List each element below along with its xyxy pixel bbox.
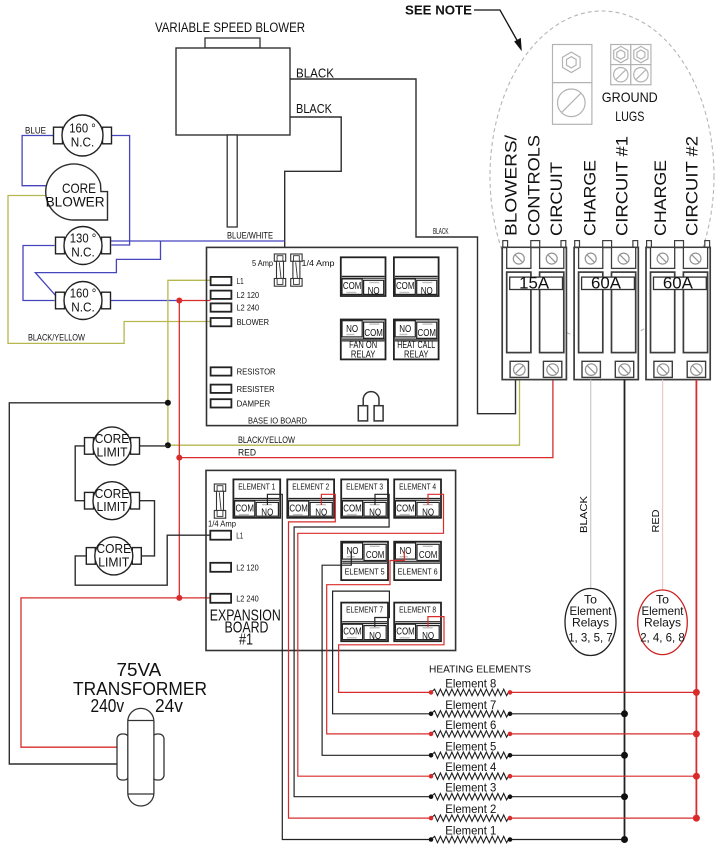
terminal L2 240 (base board) <box>211 303 260 312</box>
terminal L1 (expansion board) <box>210 531 243 541</box>
transformer T1 symbol <box>117 708 164 806</box>
node element 8 right <box>508 690 513 695</box>
svg-text:BLOWER: BLOWER <box>46 194 105 210</box>
svg-text:1, 3, 5, 7: 1, 3, 5, 7 <box>568 631 613 645</box>
svg-text:RELAY: RELAY <box>404 349 429 360</box>
wire blue branch to switch S3 left <box>35 241 160 296</box>
svg-text:NO: NO <box>347 545 359 557</box>
node element 7 bus junction <box>621 710 628 717</box>
svg-text:CORE: CORE <box>97 542 132 556</box>
node element 5 bus junction <box>621 752 628 759</box>
circuit breaker CB3 (60A) <box>646 241 710 380</box>
svg-text:NO: NO <box>368 285 380 297</box>
node element 2 left <box>429 816 434 821</box>
node element 7 right <box>508 712 513 717</box>
wire BLACK from blower to blue/white junction <box>285 117 342 247</box>
circuit breaker CB2 (60A) <box>574 241 638 380</box>
svg-text:RED: RED <box>238 448 256 458</box>
svg-text:LUGS: LUGS <box>615 108 644 124</box>
wire blue: switch S2 left down to switch S3 left <box>23 246 55 301</box>
fuse F1 5A <box>274 254 285 286</box>
svg-text:ELEMENT 3: ELEMENT 3 <box>346 481 383 491</box>
svg-text:ELEMENT 7: ELEMENT 7 <box>346 605 383 615</box>
svg-text:LIMIT: LIMIT <box>97 445 128 459</box>
wire element 7 to bus <box>510 713 625 715</box>
svg-text:Element 2: Element 2 <box>445 802 496 816</box>
heating element R2 (Element 2) <box>431 802 510 821</box>
svg-text:CIRCUIT #2: CIRCUIT #2 <box>683 136 701 236</box>
relay K7 ELEMENT 3 <box>341 479 388 518</box>
relay K9 ELEMENT 5 <box>341 542 388 580</box>
EXPANSION BOARD #1 label <box>210 608 281 649</box>
wire element 6 to bus <box>510 733 696 735</box>
heating element R5 (Element 5) <box>431 739 510 758</box>
node element 8 bus junction <box>693 689 700 696</box>
wire: core limit chain CL1-CL2 <box>75 446 84 501</box>
wire red: to expansion L2 240 terminal <box>179 597 210 599</box>
svg-text:VARIABLE SPEED BLOWER: VARIABLE SPEED BLOWER <box>155 20 305 35</box>
relay K6 ELEMENT 2 <box>287 479 334 518</box>
svg-text:CORE: CORE <box>95 432 130 446</box>
heating element R8 (Element 8) <box>431 676 510 695</box>
terminal RESISTER (base board) <box>211 385 275 394</box>
transformer T1 labels <box>73 659 207 716</box>
wire element 4 to bus <box>510 775 696 777</box>
thermal switch S2 130 N.C. <box>56 227 111 265</box>
heating element R3 (Element 3) <box>431 781 510 800</box>
wire element 3 feed (black) <box>294 494 431 796</box>
svg-text:NO: NO <box>369 630 381 642</box>
svg-text:BASE IO BOARD: BASE IO BOARD <box>248 416 307 426</box>
svg-text:75VA: 75VA <box>117 659 162 680</box>
svg-text:NO: NO <box>369 507 381 519</box>
node element 7 left <box>429 712 434 717</box>
svg-text:NO: NO <box>422 507 434 519</box>
svg-text:NO: NO <box>261 507 273 519</box>
node element 3 bus junction <box>621 793 628 800</box>
terminal L2 120 (expansion board) <box>210 563 259 573</box>
node element 4 bus junction <box>693 773 700 780</box>
wire: CL3 left to expansion L1 <box>75 535 210 585</box>
svg-text:COM: COM <box>366 550 385 561</box>
wire element 4 feed (red) <box>298 494 444 776</box>
core limit switch CL3 <box>86 537 141 575</box>
svg-text:L1: L1 <box>237 277 244 286</box>
svg-text:#1: #1 <box>239 632 253 649</box>
heating element R6 (Element 6) <box>431 718 510 737</box>
heating element R1 (Element 1) <box>431 824 510 843</box>
thermal switch S1 160 N.C. <box>54 115 112 156</box>
wire element 8 feed (red) <box>339 617 444 693</box>
wire pink (RED) CB3 left pole to relay ellipse <box>662 380 664 590</box>
relay K8 ELEMENT 4 <box>394 479 441 518</box>
node element 1 bus junction <box>621 836 628 843</box>
svg-text:COM: COM <box>343 281 362 292</box>
wire element 7 feed (black) <box>333 591 431 714</box>
svg-text:L2 120: L2 120 <box>236 564 259 573</box>
node element 6 right <box>508 732 513 737</box>
wire: core limit chain CL2-CL3 <box>140 501 155 556</box>
wire element 1 feed (black) <box>267 494 431 839</box>
svg-text:BLACK/YELLOW: BLACK/YELLOW <box>238 435 295 445</box>
svg-text:COM: COM <box>289 503 308 514</box>
relay K4 HEAT CALL RELAY <box>394 320 439 361</box>
terminal RESISTOR (base board) <box>211 367 276 376</box>
relay K10 ELEMENT 6 <box>394 542 441 580</box>
svg-text:SEE NOTE: SEE NOTE <box>405 4 472 18</box>
wire element 2 to bus <box>510 817 696 819</box>
node element 2 bus junction <box>693 815 700 822</box>
heating element R7 (Element 7) <box>431 698 510 717</box>
svg-text:L2 240: L2 240 <box>236 595 259 604</box>
GROUND LUGS label <box>602 89 658 124</box>
node element 2 right <box>508 816 513 821</box>
svg-text:24v: 24v <box>155 695 184 716</box>
svg-text:60A: 60A <box>663 274 693 292</box>
circuit breaker CB1 (15A) <box>502 241 566 380</box>
wire red: junction to L2 120 terminal <box>179 300 210 302</box>
variable speed blower M1 <box>176 38 290 227</box>
terminal BLOWER (base board) <box>211 318 270 327</box>
wire black: yellow junction to transformer primary <box>9 403 168 764</box>
svg-text:NO: NO <box>315 507 327 519</box>
SEE NOTE label and arrow <box>405 4 522 52</box>
svg-text:Relays: Relays <box>644 616 681 630</box>
svg-text:L2 240: L2 240 <box>237 304 260 313</box>
core limit switch CL1 <box>85 427 140 465</box>
wire blue: switch S3 right to red junction <box>111 300 180 302</box>
wire black/yellow: L1 terminal to breaker CB1 left pole <box>168 280 520 445</box>
svg-text:BLACK: BLACK <box>296 67 335 81</box>
svg-text:ELEMENT 4: ELEMENT 4 <box>399 481 436 491</box>
svg-text:RESISTER: RESISTER <box>237 385 275 394</box>
svg-text:Relays: Relays <box>572 616 609 630</box>
svg-text:COM: COM <box>396 627 415 638</box>
To Element Relays 1,3,5,7 ellipse <box>565 589 616 656</box>
svg-text:Element 5: Element 5 <box>445 739 496 753</box>
svg-text:L1: L1 <box>236 532 243 541</box>
svg-text:CIRCUIT: CIRCUIT <box>548 162 566 236</box>
svg-text:Element 8: Element 8 <box>445 676 496 690</box>
svg-text:Element 1: Element 1 <box>445 824 496 838</box>
svg-text:RELAY: RELAY <box>351 349 376 360</box>
svg-text:LIMIT: LIMIT <box>98 555 129 569</box>
wire red: to breaker CB1 right pole <box>179 380 553 458</box>
svg-text:Element 4: Element 4 <box>445 760 496 774</box>
svg-text:1/4 Amp: 1/4 Amp <box>208 519 236 529</box>
svg-text:NO: NO <box>422 630 434 642</box>
svg-text:HEATING ELEMENTS: HEATING ELEMENTS <box>429 665 531 676</box>
wire red main vertical <box>178 301 180 598</box>
jumper plug symbol <box>358 392 383 421</box>
svg-text:CHARGE: CHARGE <box>652 160 670 236</box>
svg-text:CIRCUIT #1: CIRCUIT #1 <box>613 136 631 236</box>
svg-text:LIMIT: LIMIT <box>97 500 128 514</box>
ground lug (single) <box>553 45 592 125</box>
svg-text:CONTROLS: CONTROLS <box>525 135 543 236</box>
terminal L1 (base board) <box>211 277 244 286</box>
wire element 5 to bus <box>510 754 625 756</box>
svg-text:GROUND: GROUND <box>602 89 658 105</box>
wire red bus CB3 right pole down to elements <box>695 380 697 818</box>
svg-text:5 Amp: 5 Amp <box>252 258 273 268</box>
node element 6 bus junction <box>693 730 700 737</box>
wire element 1 to bus <box>510 839 625 841</box>
wire gray (BLACK) CB2 left pole to relay ellipse <box>590 380 592 589</box>
svg-text:COM: COM <box>419 550 438 561</box>
thermal switch S3 160 N.C. <box>56 282 111 320</box>
relay K3 FAN ON RELAY <box>341 320 386 361</box>
svg-text:COM: COM <box>235 503 254 514</box>
svg-text:L2 120: L2 120 <box>237 291 260 300</box>
fuse F3 1/4A (expansion) <box>214 484 225 518</box>
wire element 3 to bus <box>510 796 625 798</box>
svg-text:BLACK/YELLOW: BLACK/YELLOW <box>28 333 85 343</box>
svg-text:N.C.: N.C. <box>71 301 95 315</box>
relay K12 ELEMENT 8 <box>394 603 441 642</box>
svg-text:60A: 60A <box>591 274 621 292</box>
svg-text:BLACK: BLACK <box>296 102 333 116</box>
svg-text:2, 4, 6, 8: 2, 4, 6, 8 <box>640 631 685 645</box>
svg-text:COM: COM <box>418 328 437 339</box>
svg-text:1/4 Amp: 1/4 Amp <box>302 258 335 268</box>
node element 5 right <box>508 753 513 758</box>
svg-text:COM: COM <box>343 627 362 638</box>
svg-text:BLOWERS/: BLOWERS/ <box>503 135 521 236</box>
relay K5 ELEMENT 1 <box>233 479 280 518</box>
svg-text:NO: NO <box>346 323 358 335</box>
expansion board U2 outline <box>206 470 456 650</box>
wire element 8 to bus <box>510 691 696 693</box>
relay K1 (base board) <box>341 257 386 297</box>
wire blue: switch S1 right down to switch S2 right <box>111 136 130 246</box>
svg-text:NO: NO <box>400 545 412 557</box>
svg-text:BLUE/WHITE: BLUE/WHITE <box>227 231 273 241</box>
svg-text:COM: COM <box>396 281 415 292</box>
svg-text:N.C.: N.C. <box>71 136 95 150</box>
relay K11 ELEMENT 7 <box>341 603 388 642</box>
terminal L2 240 (expansion board) <box>210 594 259 604</box>
svg-text:CHARGE: CHARGE <box>582 160 600 236</box>
svg-text:240v: 240v <box>91 695 125 716</box>
svg-text:N.C.: N.C. <box>71 246 95 260</box>
terminal DAMPER (base board) <box>211 399 271 408</box>
svg-text:BLUE: BLUE <box>25 126 46 136</box>
base IO board U1 outline <box>207 247 458 425</box>
junction dot at core limit feed <box>165 442 171 448</box>
svg-text:NO: NO <box>421 285 433 297</box>
wire black bus CB2 right pole down to elements <box>624 380 626 840</box>
svg-text:ELEMENT 2: ELEMENT 2 <box>292 481 329 491</box>
node element 4 right <box>508 774 513 779</box>
junction dot at yellow wire <box>165 400 171 406</box>
svg-text:ELEMENT 1: ELEMENT 1 <box>238 481 275 491</box>
svg-text:BLOWER: BLOWER <box>237 318 270 327</box>
svg-text:130 °: 130 ° <box>70 231 97 245</box>
heating element R4 (Element 4) <box>431 760 510 779</box>
svg-text:BLACK: BLACK <box>578 496 590 533</box>
svg-text:DAMPER: DAMPER <box>237 399 271 408</box>
svg-text:BLACK: BLACK <box>433 227 449 236</box>
svg-text:RESISTOR: RESISTOR <box>237 368 276 377</box>
wire element 6 feed (red) <box>327 551 431 734</box>
fuse F2 1/4A <box>291 254 302 286</box>
svg-text:COM: COM <box>396 503 415 514</box>
svg-text:15A: 15A <box>519 274 549 292</box>
svg-text:ELEMENT 6: ELEMENT 6 <box>398 567 438 577</box>
node element 1 right <box>508 837 513 842</box>
wire BLACK from blower to breaker CB1 left pole <box>290 79 516 414</box>
svg-text:RED: RED <box>650 509 662 532</box>
node element 1 left <box>429 837 434 842</box>
wire black/yellow: core blower to BLOWER terminal <box>8 196 211 344</box>
node element 5 left <box>429 753 434 758</box>
wire element 2 feed (red) <box>289 494 432 818</box>
node element 3 left <box>429 794 434 799</box>
note ellipse (dashed) <box>490 11 714 341</box>
wire: CL1 right to yellow junction <box>140 445 168 447</box>
svg-text:Element 3: Element 3 <box>445 781 496 795</box>
core limit switch CL2 <box>85 482 140 520</box>
svg-text:ELEMENT 8: ELEMENT 8 <box>399 605 436 615</box>
node element 6 left <box>429 732 434 737</box>
node element 4 left <box>429 774 434 779</box>
svg-text:160 °: 160 ° <box>70 286 97 300</box>
core blower B1 <box>46 164 108 220</box>
svg-text:Element 6: Element 6 <box>445 718 496 732</box>
svg-text:ELEMENT 5: ELEMENT 5 <box>345 567 385 577</box>
wire blue: switch S1 left to core blower <box>22 136 54 186</box>
node element 8 left <box>429 690 434 695</box>
junction dot red at L2 240 <box>176 595 182 601</box>
node element 3 right <box>508 794 513 799</box>
ground lugs (double block) <box>611 45 651 85</box>
svg-text:COM: COM <box>343 503 362 514</box>
svg-text:160 °: 160 ° <box>69 121 96 135</box>
junction dot red at S3 <box>176 298 182 304</box>
To Element Relays 2,4,6,8 ellipse <box>638 590 688 655</box>
wire element 5 feed (black) <box>322 551 431 755</box>
svg-text:COM: COM <box>364 328 383 339</box>
junction dot red at breaker feed <box>176 455 182 461</box>
svg-text:CORE: CORE <box>95 487 130 501</box>
wire blue/white: switch S2 right to junction with black <box>107 240 285 242</box>
svg-text:Element 7: Element 7 <box>445 698 496 712</box>
svg-text:NO: NO <box>399 323 411 335</box>
wire red: to transformer primary <box>21 598 179 747</box>
terminal L2 120 (base board) <box>211 291 260 300</box>
relay K2 (base board) <box>394 257 439 297</box>
